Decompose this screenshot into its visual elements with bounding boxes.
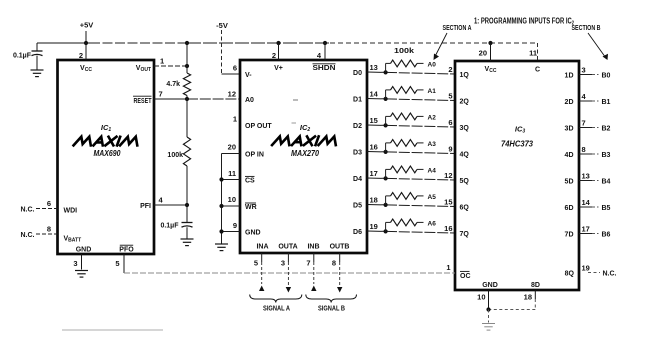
note programming inputs — [474, 17, 574, 27]
MAXIM logo IC2 — [272, 136, 339, 145]
resistor R1 4.7k — [166, 66, 190, 99]
svg-text:C: C — [535, 67, 540, 74]
svg-text:18: 18 — [524, 293, 532, 302]
svg-text:2D: 2D — [565, 99, 574, 106]
wire B6 stub — [579, 232, 611, 239]
svg-text:MAX690: MAX690 — [94, 148, 121, 158]
svg-text:2: 2 — [448, 65, 452, 74]
svg-text:74HC373: 74HC373 — [501, 139, 533, 149]
svg-text:1: PROGRAMMING INPUTS FOR IC2: 1: PROGRAMMING INPUTS FOR IC2 — [474, 17, 574, 27]
wire -5V to V- pin 6 — [222, 30, 241, 74]
svg-text:9: 9 — [448, 145, 452, 154]
+5V supply — [80, 21, 94, 44]
svg-text:SECTION B: SECTION B — [572, 25, 601, 32]
svg-text:D3: D3 — [353, 149, 362, 156]
IC U2 MAX270 box — [228, 43, 379, 268]
N.C. stub 8Q pin19 — [588, 271, 617, 278]
svg-text:13: 13 — [582, 172, 590, 181]
svg-text:5Q: 5Q — [460, 178, 470, 185]
svg-text:OC: OC — [460, 273, 471, 280]
svg-text:16: 16 — [370, 143, 378, 152]
capacitor C2 0.1uF — [160, 205, 192, 239]
svg-text:D6: D6 — [353, 229, 362, 236]
svg-text:100k: 100k — [394, 48, 414, 55]
svg-text:MAX270: MAX270 — [291, 148, 319, 158]
svg-text:7: 7 — [306, 259, 310, 268]
scan speck marks — [292, 100, 299, 123]
wire OP-IN/CS/WR/GND ground bus — [219, 154, 240, 244]
svg-text:20: 20 — [228, 143, 236, 152]
svg-text:3D: 3D — [565, 125, 574, 132]
wire Vout pin1 to +5V node — [154, 43, 189, 68]
wire B1 stub — [579, 99, 611, 106]
wire INA signal input — [259, 253, 264, 291]
svg-text:GND: GND — [245, 230, 261, 237]
svg-text:16: 16 — [444, 224, 452, 233]
svg-text:OUTA: OUTA — [278, 244, 297, 251]
wire B3 stub — [579, 152, 611, 159]
svg-text:A0: A0 — [428, 61, 437, 68]
svg-text:7Q: 7Q — [460, 231, 470, 238]
SIGNAL B label — [306, 295, 357, 313]
svg-text:A6: A6 — [428, 220, 437, 227]
svg-text:1: 1 — [446, 263, 450, 272]
svg-text:13: 13 — [370, 63, 378, 72]
resistor R7 100k A4 — [386, 166, 437, 178]
svg-text:14: 14 — [370, 90, 379, 99]
svg-text:15: 15 — [370, 116, 378, 125]
svg-text:7D: 7D — [565, 231, 574, 238]
svg-text:OP IN: OP IN — [245, 152, 264, 159]
svg-text:8Q: 8Q — [565, 271, 575, 278]
svg-text:17: 17 — [582, 225, 590, 234]
svg-text:OP OUT: OP OUT — [245, 123, 272, 130]
ground — [31, 70, 44, 77]
wire B4 stub — [579, 179, 611, 186]
ground — [215, 244, 228, 251]
resistor R6 100k A3 — [386, 140, 437, 152]
svg-text:GND: GND — [482, 282, 498, 289]
svg-text:VOUT: VOUT — [136, 65, 151, 73]
wire 8D pin18 to GND pin10 — [486, 299, 535, 323]
svg-text:INB: INB — [307, 244, 319, 251]
svg-text:A5: A5 — [428, 194, 437, 201]
svg-text:100k: 100k — [167, 152, 183, 159]
svg-text:10: 10 — [477, 293, 485, 302]
svg-text:2Q: 2Q — [460, 98, 470, 105]
svg-text:B3: B3 — [602, 152, 611, 159]
svg-text:4Q: 4Q — [460, 151, 470, 158]
svg-text:D0: D0 — [353, 70, 362, 77]
-5V supply — [216, 21, 228, 30]
svg-text:RESET: RESET — [134, 98, 153, 105]
svg-text:+5V: +5V — [80, 21, 94, 30]
svg-text:V+: V+ — [274, 65, 283, 72]
resistor R5 100k A2 — [386, 113, 437, 125]
svg-text:PFO: PFO — [119, 247, 134, 254]
N.C. stub WDI pin6 — [21, 207, 58, 214]
svg-text:4D: 4D — [565, 152, 574, 159]
svg-text:11: 11 — [228, 169, 236, 178]
svg-text:D2: D2 — [353, 123, 362, 130]
wire INB signal input — [311, 253, 316, 291]
svg-text:D1: D1 — [353, 96, 362, 103]
wire +5V rail — [37, 41, 538, 45]
wire D6 to latch pin — [367, 229, 455, 233]
svg-text:5D: 5D — [565, 178, 574, 185]
svg-text:VBATT: VBATT — [64, 236, 82, 244]
svg-text:A1: A1 — [428, 88, 437, 95]
svg-text:11: 11 — [529, 49, 537, 58]
wire PFI pin4 node — [154, 203, 189, 207]
N.C. stub VBATT pin8 — [21, 232, 58, 239]
svg-text:4.7k: 4.7k — [166, 81, 180, 88]
svg-text:PFI: PFI — [140, 203, 151, 210]
svg-text:20: 20 — [479, 49, 487, 58]
svg-text:3Q: 3Q — [460, 125, 470, 132]
resistor R8 100k A5 — [386, 193, 437, 205]
svg-text:B5: B5 — [602, 205, 611, 212]
svg-text:5: 5 — [254, 259, 258, 268]
svg-text:WDI: WDI — [64, 208, 78, 215]
svg-text:8: 8 — [47, 225, 51, 234]
svg-text:B6: B6 — [602, 232, 611, 239]
svg-text:6Q: 6Q — [460, 204, 470, 211]
svg-text:6: 6 — [448, 118, 452, 127]
svg-text:D5: D5 — [353, 202, 362, 209]
SECTION A callout — [434, 25, 472, 60]
svg-text:N.C.: N.C. — [21, 232, 35, 239]
wire D0 to latch pin — [367, 70, 455, 74]
svg-text:VCC: VCC — [485, 66, 497, 74]
svg-text:18: 18 — [370, 196, 378, 205]
wire B2 stub — [579, 126, 611, 133]
svg-text:3: 3 — [582, 66, 586, 75]
svg-text:19: 19 — [582, 264, 590, 273]
svg-text:3: 3 — [281, 259, 285, 268]
SECTION B callout — [572, 25, 609, 60]
svg-text:1D: 1D — [565, 72, 574, 79]
svg-text:VCC: VCC — [80, 65, 92, 73]
svg-text:GND: GND — [76, 247, 92, 254]
resistor R4 100k A1 — [386, 87, 437, 99]
wire D2 to latch pin — [367, 123, 455, 127]
svg-text:SIGNAL A: SIGNAL A — [263, 306, 290, 313]
wire D1 to latch pin — [367, 97, 455, 101]
svg-text:V-: V- — [245, 72, 252, 79]
svg-text:B4: B4 — [602, 179, 611, 186]
resistor R3 100k A0 — [386, 48, 437, 72]
svg-text:1: 1 — [233, 115, 237, 124]
svg-text:SIGNAL B: SIGNAL B — [318, 306, 345, 313]
svg-text:INA: INA — [256, 244, 268, 251]
resistor R9 100k A6 — [386, 219, 437, 231]
svg-text:5: 5 — [115, 259, 119, 268]
svg-text:0.1µF: 0.1µF — [160, 223, 179, 230]
svg-text:A2: A2 — [428, 114, 437, 121]
IC U3 74HC373 box — [444, 43, 591, 310]
svg-text:-5V: -5V — [216, 21, 228, 30]
svg-text:12: 12 — [228, 90, 236, 99]
wire OUTA signal output — [286, 253, 291, 293]
svg-text:WR: WR — [245, 204, 257, 211]
svg-text:7: 7 — [159, 90, 163, 99]
svg-text:CS: CS — [245, 178, 255, 185]
wire PFO pin5 to OC pin1 — [124, 272, 455, 274]
svg-text:2: 2 — [272, 51, 276, 60]
svg-text:8D: 8D — [531, 282, 540, 289]
wire D5 to latch pin — [367, 203, 455, 207]
svg-text:A3: A3 — [428, 141, 437, 148]
svg-text:SHDN: SHDN — [313, 65, 336, 72]
MAXIM logo IC1 — [74, 137, 141, 146]
svg-text:10: 10 — [228, 195, 236, 204]
SIGNAL A label — [250, 295, 302, 313]
svg-text:7: 7 — [582, 119, 586, 128]
svg-text:0.1µF: 0.1µF — [13, 53, 32, 60]
wire B5 stub — [579, 205, 611, 212]
svg-text:12: 12 — [444, 171, 452, 180]
svg-text:6: 6 — [47, 199, 51, 208]
scan artifact line — [62, 329, 163, 331]
svg-text:1Q: 1Q — [460, 72, 470, 79]
svg-text:17: 17 — [370, 169, 378, 178]
svg-text:3: 3 — [73, 259, 77, 268]
svg-text:6: 6 — [233, 64, 237, 73]
wire OUTB signal output — [337, 253, 342, 293]
wire RESET pin7 to A0 pin12, node — [154, 97, 240, 101]
wire D4 to latch pin — [367, 176, 455, 180]
svg-text:B2: B2 — [602, 126, 611, 133]
ground below IC1 GND — [75, 271, 88, 278]
svg-text:SECTION A: SECTION A — [443, 25, 472, 32]
svg-text:6D: 6D — [565, 205, 574, 212]
svg-text:A0: A0 — [245, 97, 254, 104]
svg-text:1: 1 — [160, 57, 164, 66]
ground — [181, 239, 194, 246]
capacitor C1 0.1uF — [13, 43, 43, 70]
svg-text:OUTB: OUTB — [330, 244, 350, 251]
svg-text:N.C.: N.C. — [603, 271, 617, 278]
IC U1 MAX690 box — [47, 43, 164, 273]
svg-text:D4: D4 — [353, 176, 362, 183]
svg-text:5: 5 — [448, 92, 452, 101]
svg-text:19: 19 — [370, 222, 378, 231]
ground — [482, 324, 495, 331]
svg-text:8: 8 — [582, 145, 586, 154]
svg-text:A4: A4 — [428, 167, 437, 174]
svg-text:B1: B1 — [602, 99, 611, 106]
svg-text:8: 8 — [332, 259, 336, 268]
resistor R2 100k — [167, 99, 190, 205]
wire B0 stub — [579, 73, 611, 80]
svg-text:B0: B0 — [602, 73, 611, 80]
wire D3 to latch pin — [367, 150, 455, 154]
svg-text:9: 9 — [233, 221, 237, 230]
svg-text:2: 2 — [79, 51, 83, 60]
svg-text:N.C.: N.C. — [21, 207, 35, 214]
svg-text:15: 15 — [444, 198, 452, 207]
svg-text:14: 14 — [582, 198, 591, 207]
